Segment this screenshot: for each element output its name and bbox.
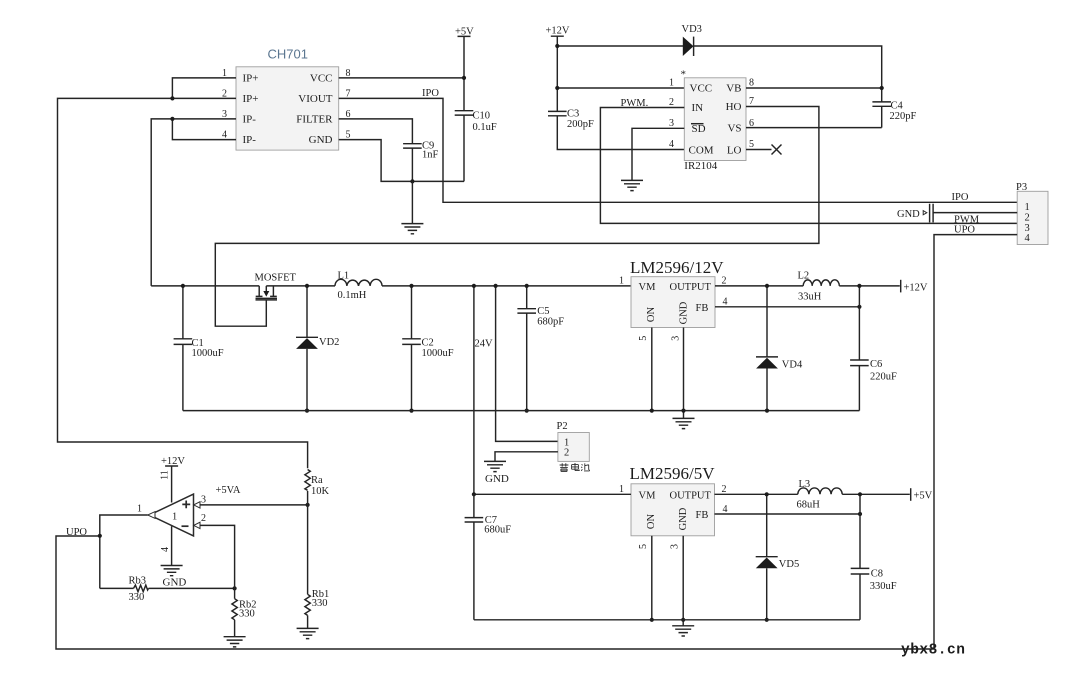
node junction feedback Rb2	[233, 586, 237, 590]
svg-text:4: 4	[160, 547, 171, 552]
wire CH701 pin4 to pin3	[172, 119, 236, 140]
svg-text:VCC: VCC	[690, 83, 713, 95]
svg-text:HO: HO	[726, 101, 742, 113]
svg-text:5: 5	[749, 139, 754, 150]
svg-text:1: 1	[172, 512, 177, 523]
wire feedback line to Rb3	[100, 587, 134, 589]
wire CH701 pin1 to pin2	[172, 78, 236, 99]
svg-text:68uH: 68uH	[797, 500, 821, 511]
wire 5V-section ground rail	[474, 619, 860, 621]
svg-text:L3: L3	[799, 479, 811, 490]
svg-text:680uF: 680uF	[484, 524, 511, 535]
node junction VD4 bottom	[765, 409, 769, 413]
resistor Rb3 330	[129, 576, 149, 603]
connector P2 battery	[557, 421, 590, 462]
wire minus input pin2 down to feedback	[200, 525, 235, 588]
wire GND pin3 to ground rail (12V section)	[683, 328, 685, 419]
node junction pin2	[170, 96, 174, 100]
svg-text:+12V: +12V	[546, 26, 570, 37]
diode VD3	[682, 24, 702, 56]
power +5V	[455, 26, 474, 110]
node plus input arrow (op-amp)	[194, 502, 200, 508]
svg-text:VD3: VD3	[682, 24, 702, 35]
svg-text:+12V: +12V	[161, 456, 185, 467]
resistor Ra 10K	[305, 470, 330, 505]
svg-text:IP-: IP-	[243, 134, 257, 146]
svg-text:IP-: IP-	[243, 114, 257, 126]
svg-text:ybx8.cn: ybx8.cn	[901, 643, 965, 659]
wire MOSFET source to L1	[266, 285, 335, 287]
svg-text:VM: VM	[639, 490, 657, 501]
svg-text:8: 8	[749, 78, 754, 89]
node junction C2 bottom	[409, 409, 413, 413]
svg-text:P3: P3	[1016, 182, 1027, 193]
svg-text:1: 1	[619, 484, 624, 495]
capacitor C1 1000uF	[174, 286, 224, 411]
svg-text:ON: ON	[646, 514, 657, 530]
capacitor C4	[872, 100, 916, 127]
svg-text:330: 330	[239, 608, 255, 619]
wire battery branch down to P2 pin1	[496, 286, 558, 442]
wire FB pin4 to C6	[715, 306, 859, 308]
svg-text:4: 4	[723, 297, 728, 308]
svg-text:1000uF: 1000uF	[422, 348, 454, 359]
node junction ON pin5 ground	[650, 409, 654, 413]
svg-text:3: 3	[669, 118, 674, 129]
node junction C6 top	[857, 284, 861, 288]
node junction VM pin1 C7	[472, 492, 476, 496]
svg-text:*: *	[681, 69, 687, 81]
capacitor C3	[548, 108, 594, 130]
svg-text:2: 2	[201, 513, 206, 524]
svg-text:PWM.: PWM.	[621, 98, 649, 109]
capacitor C10	[455, 110, 497, 181]
node junction C1 rail	[181, 284, 185, 288]
wire VB pin8 to C4	[746, 87, 882, 89]
ground (SD pin3)	[621, 180, 643, 190]
wire L2 to +12V output	[839, 285, 900, 287]
node junction C5 bottom	[525, 409, 529, 413]
wire OUTPUT pin2 to L2	[715, 285, 803, 287]
node junction battery branch B	[494, 284, 498, 288]
node junction FB C6	[857, 305, 861, 309]
regulator U LM2596/12V	[630, 258, 724, 328]
svg-text:UPO: UPO	[66, 527, 87, 538]
svg-text:220pF: 220pF	[890, 111, 917, 122]
svg-text:330: 330	[312, 598, 328, 609]
node junction GND pin3 ground (5V)	[681, 618, 685, 622]
svg-text:GND: GND	[309, 134, 333, 146]
svg-text:VD4: VD4	[782, 359, 803, 370]
node junction VD5 bottom	[765, 618, 769, 622]
ground (Rb2)	[224, 637, 246, 647]
ground (Rb1)	[297, 628, 319, 638]
svg-text:FILTER: FILTER	[296, 114, 333, 126]
wire VS pin6 to C4 bottom	[746, 127, 882, 129]
svg-text:FB: FB	[696, 510, 709, 521]
capacitor C6 220uF	[850, 286, 897, 411]
wire op-amp output to UPO and feedback	[100, 515, 148, 588]
svg-text:Rb3: Rb3	[129, 576, 147, 587]
svg-text:2: 2	[722, 484, 727, 495]
svg-text:CH701: CH701	[268, 47, 308, 62]
wire 24V branch down to LM2596/5V VM	[473, 286, 475, 494]
capacitor C2 1000uF	[402, 286, 454, 411]
wire L1 to LM2596/12V VM pin1	[382, 285, 631, 287]
node output arrow (op-amp)	[148, 512, 155, 519]
wire IR2104 VCC pin1 to +12V	[557, 87, 684, 89]
ground (LM2596/5V)	[672, 626, 694, 636]
svg-text:C3: C3	[567, 108, 579, 119]
node junction VD2 top	[305, 284, 309, 288]
wire op-amp pin4 to ground	[171, 526, 173, 565]
power +12V (op-amp supply)	[161, 456, 185, 503]
wire GND pin3 to ground (5V section)	[682, 536, 684, 626]
svg-text:0.1uF: 0.1uF	[473, 122, 497, 133]
wire VIOUT IPO net to P3 pin1	[339, 98, 1018, 202]
svg-text:C10: C10	[473, 110, 491, 121]
node minus input arrow (op-amp)	[194, 522, 200, 528]
op-amp gate driver U IR2104	[681, 69, 747, 173]
svg-text:VD2: VD2	[319, 337, 339, 348]
inductor L3 68uH	[797, 479, 843, 511]
svg-text:C4: C4	[891, 100, 904, 111]
diode VD2	[296, 286, 339, 411]
wire 24V rail left segment to MOSFET drain	[151, 285, 259, 287]
svg-text:IR2104: IR2104	[684, 160, 718, 172]
svg-text:4: 4	[669, 139, 674, 150]
svg-text:Ra: Ra	[311, 475, 323, 486]
node junction pin3 Ra Rb1	[306, 503, 310, 507]
svg-text:GND: GND	[485, 473, 509, 485]
ground (P2)	[484, 461, 506, 471]
inductor L2 33uH	[798, 271, 840, 303]
wire UPO net P3 pin4 down right side along bottom to op-amp	[56, 235, 1017, 649]
svg-text:2: 2	[564, 448, 569, 459]
svg-text:IPO: IPO	[952, 192, 969, 203]
ground (LM2596/12V)	[673, 418, 695, 428]
svg-text:IP+: IP+	[243, 93, 259, 105]
power +5V output terminal	[911, 488, 933, 502]
svg-text:MOSFET: MOSFET	[255, 273, 297, 284]
svg-text:10K: 10K	[311, 486, 330, 497]
svg-text:L2: L2	[798, 271, 810, 282]
svg-text:7: 7	[749, 96, 754, 107]
capacitor C8 330uF	[851, 494, 897, 620]
svg-text:FB: FB	[696, 303, 709, 314]
svg-text:VD5: VD5	[779, 559, 799, 570]
svg-text:C6: C6	[870, 359, 882, 370]
op-amp U1 comparator	[150, 494, 194, 536]
capacitor C5 680pF	[517, 286, 564, 411]
wire HO pin7 to MOSFET gate	[215, 107, 819, 327]
svg-text:OUTPUT: OUTPUT	[670, 490, 712, 501]
node junction +12V VD3	[555, 44, 559, 48]
svg-text:C8: C8	[871, 568, 883, 579]
svg-text:LM2596/12V: LM2596/12V	[630, 258, 724, 277]
svg-text:L1: L1	[338, 270, 350, 281]
svg-text:IP+: IP+	[243, 73, 259, 85]
svg-text:200pF: 200pF	[567, 119, 594, 130]
wire FILTER to C9	[339, 119, 413, 144]
wire 12V-section ground rail	[183, 410, 860, 412]
resistor Rb1 330	[305, 505, 329, 628]
power +12V output terminal	[901, 280, 928, 294]
svg-text:GND: GND	[897, 209, 920, 220]
svg-text:IPO: IPO	[422, 88, 439, 99]
wire OUTPUT pin2 to L3	[715, 493, 798, 495]
diode VD5	[756, 494, 800, 620]
svg-text:VCC: VCC	[310, 73, 333, 85]
resistor Rb2 330	[232, 588, 257, 636]
wire ON pin5 to ground rail (5V section)	[651, 536, 653, 620]
svg-text:2: 2	[722, 276, 727, 287]
wire FB pin4 to C8	[715, 513, 861, 515]
node junction C9 bottom	[410, 179, 414, 183]
ground (below C9)	[401, 224, 423, 234]
regulator U LM2596/5V	[630, 464, 716, 536]
value label battery (Chinese)	[560, 463, 590, 471]
svg-text:LM2596/5V: LM2596/5V	[630, 464, 716, 483]
svg-text:P2: P2	[557, 421, 568, 432]
inductor L1 0.1mH	[335, 270, 382, 301]
svg-text:1: 1	[669, 78, 674, 89]
node junction VD5 top	[765, 492, 769, 496]
wire ON pin5 to ground rail (12V section)	[651, 328, 653, 411]
svg-text:3: 3	[670, 544, 681, 549]
node junction C2 top	[409, 284, 413, 288]
node junction C5 top	[525, 284, 529, 288]
wire VCC pin8 to +5V	[339, 77, 464, 79]
power +12V (gate driver)	[546, 26, 570, 112]
wire Rb3 to Rb2 junction	[149, 587, 235, 589]
svg-text:220uF: 220uF	[870, 372, 897, 383]
svg-text:2: 2	[1025, 212, 1030, 223]
svg-text:COM: COM	[689, 144, 714, 156]
svg-text:VB: VB	[726, 83, 741, 95]
svg-text:24V: 24V	[475, 339, 494, 350]
svg-text:+5V: +5V	[455, 26, 474, 37]
wire CH701 GND pin5 to ground rail	[339, 140, 464, 182]
node GND flag at P3 pin2	[897, 204, 933, 223]
wire IN pin2 PWM net to P3 pin3	[600, 108, 1017, 224]
svg-text:1: 1	[137, 504, 142, 515]
svg-text:0.1mH: 0.1mH	[338, 290, 367, 301]
connector P3	[1016, 182, 1048, 245]
svg-text:+5VA: +5VA	[216, 485, 241, 496]
svg-text:VM: VM	[639, 282, 657, 293]
node junction FB C8	[858, 512, 862, 516]
svg-text:SD: SD	[692, 123, 706, 135]
svg-text:OUTPUT: OUTPUT	[670, 282, 712, 293]
svg-text:GND: GND	[163, 577, 187, 589]
svg-text:330: 330	[129, 592, 145, 603]
capacitor C7 680uF	[465, 494, 512, 620]
wire GND flag to P3 pin2	[933, 212, 1017, 214]
wire P2 pin2 to ground	[495, 452, 558, 461]
capacitor C9	[403, 141, 438, 182]
node junction GND pin3 ground	[681, 409, 685, 413]
wire L3 to +5V output	[842, 493, 910, 495]
svg-text:1000uF: 1000uF	[192, 348, 224, 359]
node junction VCC pin1	[555, 86, 559, 90]
svg-text:GND: GND	[678, 301, 689, 324]
svg-text:5: 5	[638, 336, 649, 341]
wire LO pin5 no-connect	[746, 149, 772, 151]
svg-text:+5V: +5V	[914, 491, 933, 502]
wire SD pin3 to ground	[632, 128, 684, 180]
node junction UPO output	[98, 534, 102, 538]
svg-text:ON: ON	[646, 307, 657, 323]
svg-text:330uF: 330uF	[870, 581, 897, 592]
op-amp current sensor U CH701	[236, 47, 339, 151]
svg-text:4: 4	[1025, 233, 1031, 244]
node junction ON pin5 ground (5V)	[650, 618, 654, 622]
svg-text:GND: GND	[678, 507, 689, 530]
node junction VCC +5V	[462, 76, 466, 80]
diode VD4	[756, 286, 803, 411]
svg-text:1: 1	[619, 276, 624, 287]
svg-text:3: 3	[671, 336, 682, 341]
wire CH701 pin2 left column to Ra top	[58, 98, 308, 468]
node junction VB C4	[880, 86, 884, 90]
wire 24V branch to VM pin1 (5V)	[474, 493, 631, 495]
svg-text:LO: LO	[727, 144, 742, 156]
node junction pin3	[170, 117, 174, 121]
svg-text:1nF: 1nF	[422, 149, 439, 160]
svg-text:5: 5	[638, 544, 649, 549]
node junction C8 top	[858, 492, 862, 496]
svg-text:2: 2	[669, 97, 674, 108]
svg-text:680pF: 680pF	[537, 316, 564, 327]
wire CH701 pin3 down to 24V rail	[151, 119, 236, 286]
node no-connect X at LO	[772, 145, 782, 155]
wire plus input pin3 to Ra/Rb1	[200, 504, 308, 506]
node junction VD4 top	[765, 284, 769, 288]
svg-text:3: 3	[201, 495, 206, 506]
svg-text:VIOUT: VIOUT	[298, 93, 332, 105]
svg-text:+12V: +12V	[904, 282, 928, 293]
wire VD3 cathode to C4 top	[694, 46, 882, 102]
node junction 24V branch A	[472, 284, 476, 288]
wire C3 bottom to COM pin4	[557, 116, 684, 150]
ground (op-amp pin4)	[161, 566, 183, 576]
svg-text:11: 11	[160, 470, 171, 480]
svg-text:VS: VS	[727, 123, 741, 135]
node junction VD2 bottom	[305, 409, 309, 413]
wire +12V to VD3 anode rail	[557, 45, 683, 47]
wire C9 ground stem	[411, 181, 413, 223]
svg-text:IN: IN	[692, 102, 704, 114]
transistor Q MOSFET	[255, 273, 297, 300]
svg-text:33uH: 33uH	[798, 292, 822, 303]
